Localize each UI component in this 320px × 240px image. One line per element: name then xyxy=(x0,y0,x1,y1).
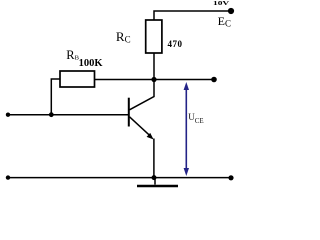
voltage arrow UCE xyxy=(184,82,189,176)
wire bottom rail xyxy=(8,177,231,179)
label UCE xyxy=(188,113,203,125)
node emitter junction xyxy=(152,175,157,180)
resistor RB xyxy=(60,71,95,87)
wire RB left lead down to base wire xyxy=(51,79,60,115)
label EC xyxy=(218,15,231,29)
transistor Q1 base bar xyxy=(128,98,130,127)
node output terminal xyxy=(211,77,217,83)
node base junction xyxy=(49,112,54,117)
wire emitter down xyxy=(153,139,155,178)
node input terminal xyxy=(6,113,10,117)
transistor Q1 emitter lead with arrow xyxy=(130,117,151,136)
label 470 xyxy=(168,40,183,49)
wire RC bottom lead xyxy=(153,53,155,80)
wire top rail to supply xyxy=(154,11,231,20)
node bottom left terminal xyxy=(6,175,10,179)
transistor Q1 collector lead xyxy=(130,80,155,110)
ground xyxy=(154,178,156,185)
label 100K xyxy=(79,59,103,70)
label RC xyxy=(116,30,131,45)
resistor RC xyxy=(146,20,162,53)
label RB xyxy=(66,49,79,62)
node supply terminal xyxy=(228,8,234,14)
node bottom right terminal xyxy=(228,175,233,180)
node collector junction xyxy=(151,77,156,82)
wire collector rail xyxy=(95,79,215,81)
label 10V xyxy=(213,1,229,8)
wire base rail xyxy=(8,114,129,116)
